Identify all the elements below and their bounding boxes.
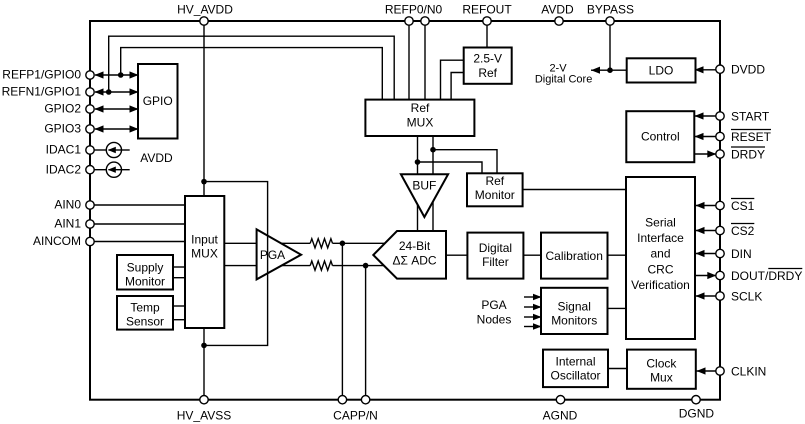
- svg-text:CS1: CS1: [731, 199, 755, 213]
- block Temp Sensor: [117, 296, 173, 330]
- svg-text:GPIO: GPIO: [143, 94, 173, 108]
- node H (CAPN): [363, 263, 369, 269]
- pin CS2: [716, 226, 724, 234]
- pin RESET: [716, 132, 724, 140]
- wire GPIO3 bidirectional: [95, 128, 138, 130]
- wire GPIO1 bidirectional: [95, 91, 138, 93]
- arrowhead GPIO2 right: [130, 105, 139, 112]
- svg-text:CRC: CRC: [648, 262, 674, 276]
- wire 2.5-V ref to Ref MUX a: [441, 60, 465, 100]
- wire digital filter to calibration: [523, 254, 542, 256]
- pin REFP1/GPIO0: [86, 71, 94, 79]
- svg-text:Temp: Temp: [130, 300, 160, 314]
- wire CAPP drop: [341, 243, 343, 400]
- svg-text:AVDD: AVDD: [140, 151, 173, 165]
- svg-text:BUF: BUF: [412, 179, 436, 193]
- pin REFN1/GPIO1: [86, 88, 94, 96]
- arrowhead DIN: [696, 250, 705, 257]
- wire HV_AVDD rail: [203, 21, 205, 196]
- wire START to Control: [694, 115, 717, 117]
- arrowhead DVDD into LDO: [695, 66, 704, 73]
- pin REFOUT: [483, 17, 491, 25]
- wire 2.5-V ref to Ref MUX b: [451, 73, 464, 101]
- svg-text:HV_AVDD: HV_AVDD: [177, 3, 233, 17]
- svg-text:Interface: Interface: [637, 231, 684, 245]
- svg-text:Digital: Digital: [479, 241, 512, 255]
- svg-text:Nodes: Nodes: [477, 313, 512, 327]
- node A (REFP1 tap): [118, 72, 124, 78]
- pin AIN1: [86, 220, 94, 228]
- svg-text:CAPP/N: CAPP/N: [333, 409, 378, 423]
- block Control: [626, 111, 694, 162]
- svg-text:LDO: LDO: [649, 64, 674, 78]
- arrowhead PGA node 3: [533, 314, 542, 321]
- svg-text:Filter: Filter: [482, 255, 509, 269]
- overbar RESET: [731, 129, 771, 131]
- wire AIN1: [94, 223, 185, 225]
- arrowhead 2-V digital core: [591, 67, 600, 74]
- pin IDAC2: [86, 166, 94, 174]
- wire signal monitors to serial interface: [607, 307, 627, 309]
- pin HV_AVSS: [200, 396, 208, 404]
- svg-text:2.5-V: 2.5-V: [473, 52, 502, 66]
- block Signal Monitors: [541, 288, 608, 334]
- pin REFN0: [421, 17, 429, 25]
- svg-text:AIN1: AIN1: [54, 217, 81, 231]
- svg-text:BYPASS: BYPASS: [587, 3, 634, 17]
- pin GPIO3: [86, 125, 94, 133]
- chip boundary: [90, 21, 720, 400]
- svg-text:DVDD: DVDD: [731, 63, 765, 77]
- svg-text:Input: Input: [191, 233, 218, 247]
- wire CLKIN to clock mux: [696, 370, 717, 372]
- svg-text:Digital Core: Digital Core: [535, 74, 592, 86]
- svg-text:Signal: Signal: [558, 300, 591, 314]
- wire REFOUT to 2.5-V ref: [486, 21, 488, 49]
- wire GPIO0 bidirectional: [95, 74, 138, 76]
- wire CAPN drop: [365, 266, 367, 400]
- svg-text:and: and: [650, 247, 670, 261]
- arrowhead GPIO0 left: [95, 71, 104, 78]
- svg-text:DIN: DIN: [731, 247, 752, 261]
- pin DRDY: [716, 150, 724, 158]
- wire PGA bypass loop: [204, 182, 268, 346]
- arrowhead START: [695, 112, 704, 119]
- arrowhead PGA node 2: [533, 304, 542, 311]
- wire Ref MUX to BUF to ADC right: [432, 135, 434, 232]
- node D (AVSS tap bottom): [201, 343, 207, 349]
- svg-text:Mux: Mux: [650, 371, 673, 385]
- wire ADC to digital filter: [446, 254, 468, 256]
- pin BYPASS: [606, 17, 614, 25]
- svg-text:IDAC1: IDAC1: [46, 143, 82, 157]
- pin CAPP: [338, 396, 346, 404]
- svg-text:REFOUT: REFOUT: [462, 3, 512, 17]
- svg-text:Verification: Verification: [631, 278, 690, 292]
- overbar CS1: [731, 198, 754, 200]
- pin GPIO2: [86, 105, 94, 113]
- svg-text:AINCOM: AINCOM: [33, 234, 81, 248]
- svg-text:REFN1/GPIO1: REFN1/GPIO1: [2, 85, 82, 99]
- wire DIN: [695, 253, 717, 255]
- svg-text:Internal: Internal: [555, 354, 595, 368]
- pin IDAC1: [86, 146, 94, 154]
- wire REFN0 to Ref MUX: [424, 21, 426, 100]
- svg-text:DGND: DGND: [679, 407, 715, 421]
- block Clock Mux: [627, 350, 696, 389]
- svg-text:AVDD: AVDD: [541, 3, 574, 17]
- wire BYPASS drop: [609, 21, 611, 70]
- overbar DRDY of DOUT/DRDY: [768, 268, 802, 270]
- adc 24-Bit Delta-Sigma ADC: [373, 231, 446, 279]
- svg-text:PGA: PGA: [481, 298, 506, 312]
- svg-text:CLKIN: CLKIN: [731, 364, 766, 378]
- wire ref monitor tap a: [433, 150, 497, 174]
- svg-text:CS2: CS2: [731, 224, 755, 238]
- svg-text:Supply: Supply: [127, 260, 164, 274]
- arrowhead GPIO2 left: [95, 105, 104, 112]
- pin CS1: [716, 201, 724, 209]
- wire CS2: [695, 230, 717, 232]
- pin DOUT/DRDY: [716, 271, 724, 279]
- current source IDAC1: [106, 142, 121, 157]
- wire ref monitor tap b: [418, 162, 483, 174]
- wire AINCOM: [94, 241, 185, 243]
- arrowhead CLKIN: [697, 367, 706, 374]
- arrowhead GPIO1 left: [95, 88, 104, 95]
- resistor PGA outP: [310, 239, 332, 248]
- arrowhead RESET: [695, 133, 704, 140]
- node E (buf in left): [415, 159, 421, 165]
- wire HV_AVSS rail: [203, 328, 205, 400]
- pin AIN0: [86, 201, 94, 209]
- svg-text:ΔΣ ADC: ΔΣ ADC: [392, 253, 436, 267]
- wire mux to PGA inP: [224, 242, 258, 244]
- pin START: [716, 112, 724, 120]
- wire REFN1/GPIO1 to Ref MUX input: [109, 36, 395, 100]
- svg-text:PGA: PGA: [260, 248, 285, 262]
- block GPIO: [138, 64, 178, 139]
- svg-text:Ref: Ref: [478, 66, 497, 80]
- svg-text:GPIO3: GPIO3: [44, 122, 81, 136]
- arrowhead CS2: [696, 227, 705, 234]
- svg-text:DRDY: DRDY: [731, 147, 765, 161]
- pin AVDD: [555, 17, 563, 25]
- pin DVDD: [716, 65, 724, 73]
- svg-text:REFP0/N0: REFP0/N0: [385, 3, 443, 17]
- node G (CAPP): [340, 241, 346, 247]
- svg-text:Oscillator: Oscillator: [550, 369, 600, 383]
- svg-text:HV_AVSS: HV_AVSS: [177, 409, 231, 423]
- svg-text:GPIO2: GPIO2: [44, 102, 81, 116]
- svg-text:Ref: Ref: [485, 174, 504, 188]
- wire AIN0: [94, 204, 185, 206]
- svg-text:Control: Control: [641, 130, 680, 144]
- wire REFP0 to Ref MUX: [408, 21, 410, 100]
- wire PGA outN: [282, 265, 311, 267]
- wire Ref MUX to BUF to ADC left: [417, 135, 419, 232]
- buffer BUF: [401, 174, 448, 217]
- op-amp PGA: [257, 229, 302, 279]
- wire PGA node 4: [524, 326, 540, 328]
- wire calibration to serial interface: [607, 254, 627, 256]
- wire IDAC1 stub: [94, 149, 107, 151]
- arrowhead PGA node 1: [533, 294, 542, 301]
- pin REFP0: [405, 17, 413, 25]
- arrowhead CS1: [696, 202, 705, 209]
- wire mux to PGA inN: [224, 265, 258, 267]
- svg-text:Serial: Serial: [645, 216, 676, 230]
- block Supply Monitor: [117, 255, 173, 290]
- wire DVDD to LDO: [695, 69, 717, 71]
- svg-text:Calibration: Calibration: [546, 249, 603, 263]
- svg-text:Monitor: Monitor: [125, 274, 165, 288]
- svg-text:AGND: AGND: [543, 409, 578, 423]
- pin CLKIN: [716, 367, 724, 375]
- wire ref monitor to serial interface: [522, 189, 627, 191]
- wire DOUT/DRDY: [695, 275, 716, 277]
- wire Control to DRDY: [694, 153, 716, 155]
- wire SCLK: [695, 295, 717, 297]
- wire GPIO2 bidirectional: [95, 108, 138, 110]
- arrowhead DRDY: [707, 150, 716, 157]
- arrowhead GPIO3 left: [95, 125, 104, 132]
- wire PGA node 2: [524, 306, 540, 308]
- block Digital Filter: [467, 233, 523, 279]
- svg-text:MUX: MUX: [407, 116, 434, 130]
- pin HV_AVDD: [200, 17, 208, 25]
- wire internal oscillator to clock mux: [607, 368, 628, 370]
- wire IDAC2 stub: [94, 169, 107, 171]
- block Serial Interface and CRC Verification: [626, 177, 695, 339]
- svg-text:RESET: RESET: [731, 130, 772, 144]
- svg-text:Clock: Clock: [646, 356, 677, 370]
- overbar DRDY: [731, 146, 765, 148]
- wire PGA node 3: [524, 316, 540, 318]
- arrowhead GPIO0 right: [130, 71, 139, 78]
- svg-text:Sensor: Sensor: [126, 314, 164, 328]
- wire LDO to 2-V digital core: [591, 69, 627, 71]
- svg-text:Monitors: Monitors: [551, 314, 597, 328]
- block Calibration: [541, 233, 608, 279]
- wire temp sensor to input mux: [173, 305, 186, 307]
- svg-text:DOUT/DRDY: DOUT/DRDY: [731, 269, 802, 283]
- wire CS1: [695, 205, 717, 207]
- node F (buf in right): [430, 147, 436, 153]
- block Input MUX: [185, 196, 224, 328]
- pin AGND: [556, 396, 564, 404]
- arrowhead SCLK: [696, 292, 705, 299]
- wire RESET to Control: [694, 136, 717, 138]
- svg-text:REFP1/GPIO0: REFP1/GPIO0: [2, 68, 81, 82]
- node B (REFN1 tap): [106, 89, 112, 95]
- wire PGA node 1: [524, 296, 540, 298]
- svg-text:24-Bit: 24-Bit: [399, 239, 431, 253]
- current source IDAC2: [106, 162, 121, 177]
- arrowhead GPIO1 right: [130, 88, 139, 95]
- wire REFP1/GPIO0 to Ref MUX input: [121, 48, 383, 100]
- svg-text:MUX: MUX: [191, 247, 218, 261]
- svg-text:START: START: [731, 109, 770, 123]
- block 2.5-V Ref: [464, 48, 512, 84]
- wire PGA outP: [281, 242, 310, 244]
- pin AINCOM: [86, 237, 94, 245]
- block Ref MUX: [365, 100, 474, 136]
- block LDO: [627, 58, 696, 82]
- arrowhead GPIO3 right: [130, 125, 139, 132]
- wire resistor to ADC inP: [333, 242, 386, 244]
- pin SCLK: [716, 292, 724, 300]
- block Internal Oscillator: [543, 350, 608, 388]
- overbar CS2: [731, 223, 754, 225]
- wire supply monitor to input mux: [173, 266, 186, 268]
- svg-text:Ref: Ref: [411, 101, 430, 115]
- node I (BYPASS/LDO): [607, 67, 613, 73]
- resistor PGA outN: [310, 261, 332, 270]
- svg-text:SCLK: SCLK: [731, 289, 762, 303]
- block Ref Monitor: [467, 173, 523, 206]
- wire resistor to ADC inN: [333, 265, 385, 267]
- pin DGND: [692, 396, 700, 404]
- svg-text:Monitor: Monitor: [475, 188, 515, 202]
- node C (AVDD tap top): [201, 179, 207, 185]
- arrowhead PGA node 4: [533, 323, 542, 330]
- svg-text:IDAC2: IDAC2: [46, 162, 82, 176]
- pin DIN: [716, 249, 724, 257]
- arrowhead DOUT/DRDY: [707, 272, 716, 279]
- svg-text:AIN0: AIN0: [54, 198, 81, 212]
- pin CAPN: [361, 396, 369, 404]
